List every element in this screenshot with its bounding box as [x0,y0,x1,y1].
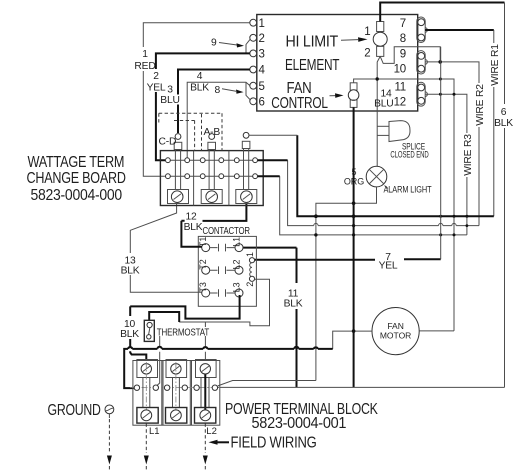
crossing blobs on 79/94 runs [439,78,442,81]
svg-text:GROUND: GROUND [48,402,101,419]
svg-text:L3: L3 [231,282,241,292]
svg-text:2: 2 [364,48,370,60]
contactor T1 terminal [198,237,210,252]
wire hi-limit pin1 to top rail [380,3,504,22]
svg-text:9: 9 [211,38,217,49]
svg-text:YEL: YEL [379,261,398,272]
contactor contacts row3 [210,289,235,297]
svg-text:BLK: BLK [184,222,203,233]
label 8 with arrow to jumper 5-6 [215,85,244,96]
alarm light DS1 [366,166,388,188]
wire 7 YEL run coil1 to R2 branch vertical [254,258,440,261]
contactor L2 terminal [231,259,243,274]
fan motor M1 [372,308,419,355]
svg-text:T3: T3 [198,282,208,293]
pin 11 (right) [394,82,424,94]
wattage row1 exit wire to 225 line [255,159,288,161]
wire R1 lower [493,87,495,216]
junction 14BLU x fan line [376,77,379,80]
svg-text:9: 9 [400,48,406,60]
svg-text:FIELD WIRING: FIELD WIRING [231,435,317,452]
thin 234.9 line (row2 to WIRE R3) [280,176,467,235]
bracket pins 7-8 [417,17,428,43]
svg-text:L2: L2 [231,259,241,269]
wattage term change board outline [160,151,263,206]
svg-text:5823-0004-001: 5823-0004-001 [252,415,347,432]
jumper pins 5-6 [246,82,250,100]
svg-text:CLOSED END: CLOSED END [390,150,429,160]
jumper pins 2-3 [246,39,250,53]
blob 5ORG x 225.6 [352,224,355,227]
label wire 2 YEL [147,69,166,94]
power block divider 2 [190,361,191,426]
wattage row 2 strip [165,175,255,177]
power block inner conductors section2 [173,378,180,408]
bracket pins 9-10 [417,51,428,74]
label wire 11 BLK [284,289,303,310]
hops on 225.6 line [314,223,457,225]
power block top lug box 1 [137,360,158,378]
label wire 7 YEL [377,250,402,272]
wire block sect3 circle to alarm leg diagonal [218,381,316,386]
svg-text:HI LIMIT: HI LIMIT [286,33,339,50]
wire L1 leg to 11 BLK drop [243,247,297,249]
svg-text:WATTAGE TERM: WATTAGE TERM [28,154,125,171]
arrow HI LIMIT [341,37,368,42]
power block side terminals [134,385,217,390]
svg-text:ELEMENT: ELEMENT [285,57,340,74]
power block inner conductors section3 L2 bold [201,378,209,408]
wire pin3 YEL run [156,53,250,160]
svg-text:THERMOSTAT: THERMOSTAT [157,328,210,339]
wire fan motor left to bus [333,331,372,349]
hi-limit switch S1 [364,22,387,60]
contactor coil winding [250,263,252,277]
svg-text:L1: L1 [231,237,241,247]
junction 5ORG x fan-left [352,329,356,333]
pin 8 (right) [400,33,425,45]
dashed alt-wiring box A-B [159,113,222,150]
svg-text:BLU: BLU [160,95,179,106]
svg-text:1: 1 [259,18,265,30]
svg-text:4: 4 [197,71,203,82]
wire coil A2 to thermostat-top net [179,279,269,326]
svg-text:WIRE R2: WIRE R2 [475,84,486,126]
svg-text:4: 4 [259,65,266,77]
contactor coil A2 terminal [245,276,255,287]
contactor K1 [198,226,256,306]
wire section3 top terminal to 216 corner [249,134,297,136]
contactor contacts row2 [210,266,235,274]
pin 9 (right) [400,48,425,60]
power block bottom lug box 1 [137,408,158,424]
svg-text:6: 6 [501,107,507,118]
wattage board divider 1 [193,151,195,206]
wire pins 7-8 to WIRE R1 [425,29,494,31]
wire 13 BLK run screw1 to T3 [130,204,201,293]
pin 10 (right) [394,64,425,76]
wire net 6 BLK far right vertical [504,3,506,388]
power block bottom lug box 2 [166,408,187,424]
power terminal block outline [133,361,220,426]
label wire 3 BLU [160,84,180,106]
label wire 10 BLK [120,319,139,340]
svg-text:2: 2 [245,282,255,287]
wire pins 9-10 to WIRE R2 [425,62,479,83]
svg-text:ALARM LIGHT: ALARM LIGHT [384,185,432,195]
wire alarm light bottom to left leg [316,187,377,381]
power block inner conductors section1 [143,378,150,408]
wattage row2 exit wire to 234 line [255,175,280,177]
svg-text:WIRE R1: WIRE R1 [490,44,501,86]
ground screw [105,405,114,418]
svg-text:CONTROL: CONTROL [271,95,328,112]
power block top lug box 3 [196,360,217,378]
svg-text:BLU: BLU [374,99,393,110]
field wiring drop L1 [144,424,149,472]
svg-text:12: 12 [394,96,406,108]
field wiring drop ground [107,419,112,471]
svg-text:BLK: BLK [284,299,303,310]
wire fan motor right up [419,330,454,332]
pin 1 (left) [250,18,265,30]
svg-text:C-D: C-D [159,137,177,148]
label wire 12 BLK [184,212,203,233]
wattage section3 strap [242,132,250,189]
wattage section2 strap A-B [208,134,216,190]
wattage section1 strap C-D [174,134,182,190]
svg-text:BLK: BLK [494,118,513,129]
arrow FAN CONTROL [330,93,344,98]
svg-text:3: 3 [167,85,173,96]
svg-text:11: 11 [394,82,406,94]
thin 225.6 line (row1 to WIRE R2) [288,160,479,225]
blobs on 234.9 line [314,233,317,236]
svg-text:T1: T1 [198,237,208,248]
wire pin4 BLU run [178,70,250,134]
wire R2 lower [478,127,480,226]
wire fan-control top to fan motor feed [354,79,454,331]
svg-text:L1: L1 [149,426,160,437]
junction 5ORG x alarm bottom [352,201,356,205]
contactor T3 terminal [198,282,210,297]
label wire 1 RED [134,47,155,72]
svg-text:A-B: A-B [204,127,221,138]
svg-text:BLK: BLK [120,329,139,340]
wire 12 BLK run screw3 to T1 [203,204,247,221]
label wire 6 BLK [494,104,513,129]
contactor L1 terminal [231,237,243,252]
svg-text:T2: T2 [198,259,208,270]
wattage row 1 strip [165,159,255,161]
svg-text:1: 1 [245,252,255,257]
svg-text:CONTACTOR: CONTACTOR [203,226,250,237]
wattage screw terminal 1 [168,190,189,204]
contactor T2 terminal [198,259,210,274]
svg-text:8: 8 [215,85,221,96]
fan control switch S2 [348,83,359,108]
wire 10 BLK vertical [130,306,146,360]
svg-text:10: 10 [394,64,406,76]
field wiring drop L2 [203,424,208,472]
power block divider 1 [162,361,163,426]
svg-text:6: 6 [259,96,265,108]
splice closed end SP1 [377,121,410,142]
svg-text:3: 3 [259,49,265,61]
label SPLICE CLOSED END [390,141,429,159]
wattage board divider 2 [228,151,230,206]
wattage screw terminal 2 [201,190,222,204]
contactor coil A1 terminal [245,252,255,263]
pin 5 (left) [250,81,265,93]
pin 4 (left) [250,65,266,77]
svg-text:BLK: BLK [121,266,140,277]
wire pins 11-12 to WIRE R3 [425,94,467,133]
bus L2 staircase: bold 216 line [297,135,494,216]
arrow FIELD WIRING [209,440,230,445]
power block center dash-dot line [130,387,222,389]
label wire 4 BLK [190,71,209,94]
L1 rail horizontal 387 [218,386,505,388]
svg-text:1: 1 [142,49,148,60]
bracket pins 11-12 [417,82,428,106]
label wire 14 BLU [374,89,393,110]
label 9 with arrow to jumper 2-3 [211,38,244,49]
contactor contacts row1 [210,244,235,252]
pin 7 (right) [400,18,425,30]
hops on bus [128,347,318,349]
svg-text:5823-0004-000: 5823-0004-000 [31,187,123,204]
wire 5 ORG vertical fan-control bottom down [353,107,355,387]
pin 3 (left) [250,49,265,61]
power block top lug box 2 [166,360,187,378]
power block section center dash-dots [146,362,176,414]
svg-text:CHANGE BOARD: CHANGE BOARD [27,170,126,187]
wattage row terminals [166,158,258,179]
label wire 5 ORG [344,167,364,187]
wire R3 lower [466,177,468,235]
power block bottom lug box 3 [195,408,216,424]
svg-text:FAN: FAN [387,321,404,331]
svg-text:L2: L2 [206,426,217,437]
junction hi-limit2 net at 9-10 wire [438,60,442,64]
svg-text:YEL: YEL [147,83,166,94]
pin 2 (left) [250,33,265,45]
wire thermostat bottom to block circle [157,336,160,386]
svg-text:2: 2 [153,71,159,82]
wire 14 BLU vertical hi-limit2 to splice and alarm [377,56,380,166]
pin 12 (right) [394,96,425,108]
wire hi-limit pin2 jog to pins 9-10 net [380,47,440,64]
wire L2 screw drop from thermostat net [204,322,206,361]
pin 6 (left) [250,96,265,108]
svg-text:7: 7 [400,18,406,30]
thermostat S3 [144,320,154,341]
svg-text:1: 1 [364,26,370,38]
junctions/blobs on 216 line [314,214,318,218]
svg-text:WIRE R3: WIRE R3 [463,134,474,176]
svg-text:2: 2 [259,33,265,45]
wire 10 BLK top run to L3 net [130,295,239,319]
wattage screw terminal 3 [236,190,257,204]
contactor L3 terminal [231,282,243,297]
svg-text:5: 5 [259,81,265,93]
bus to power block left circle [124,349,333,388]
wire pin1 RED run [143,23,250,177]
control board U1 outline [257,15,418,112]
svg-text:BLK: BLK [190,83,209,94]
svg-text:MOTOR: MOTOR [380,331,411,341]
label wire 13 BLK [121,256,140,277]
wire pin5 BLK run [187,82,250,160]
svg-text:8: 8 [400,33,406,45]
